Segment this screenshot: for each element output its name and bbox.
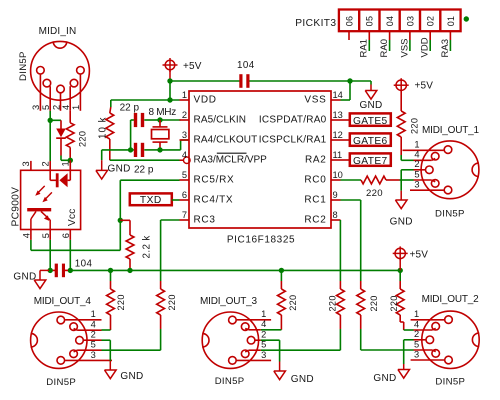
wire OUT1 pin2 to GND drop bbox=[401, 169, 413, 171]
svg-text:RC3: RC3 bbox=[194, 215, 216, 226]
svg-text:3: 3 bbox=[414, 180, 419, 190]
svg-text:VDD: VDD bbox=[420, 37, 431, 57]
crystal Q1 8MHz bbox=[159, 120, 161, 127]
opto internal LED bbox=[49, 170, 51, 180]
junction crystal top node bbox=[157, 117, 162, 122]
svg-text:MIDI_OUT_1: MIDI_OUT_1 bbox=[422, 125, 480, 136]
MIDI_OUT_1 pin 1 line bbox=[403, 149, 444, 151]
svg-text:VDD: VDD bbox=[194, 95, 217, 106]
wire +5V symbol drop bbox=[169, 70, 171, 81]
wire crystal top to RA5/CLKIN bbox=[160, 119, 181, 121]
resistor 10k (MCLR pullup) bbox=[110, 100, 112, 107]
junction rail at OUT3 supply resistor bbox=[279, 268, 284, 273]
svg-text:PICKIT3: PICKIT3 bbox=[295, 18, 336, 29]
+5V rail (bottom) bbox=[70, 269, 400, 271]
wire VDD top bbox=[111, 99, 180, 101]
MIDI_OUT_4 pin 1 line bbox=[65, 319, 101, 321]
pin 4 stub (inverted) bbox=[180, 159, 184, 161]
svg-text:1: 1 bbox=[182, 90, 187, 100]
PICKIT3 cell divider 5 bbox=[439, 10, 441, 32]
MIDI_IN pin 3 lead bbox=[39, 75, 41, 111]
svg-text:11: 11 bbox=[333, 150, 343, 160]
svg-text:220: 220 bbox=[410, 118, 420, 134]
svg-text:RA1: RA1 bbox=[359, 39, 370, 57]
pin 10 stub bbox=[331, 179, 341, 181]
wire junction to diode top bbox=[50, 119, 61, 121]
svg-text:1: 1 bbox=[414, 140, 419, 150]
svg-text:01: 01 bbox=[446, 16, 456, 27]
svg-text:GATE5: GATE5 bbox=[353, 116, 388, 127]
wire RC3 net bbox=[161, 219, 180, 221]
wire OUT2 supply bbox=[399, 270, 401, 281]
resistor 220 (RC3 series) bbox=[160, 281, 162, 289]
junction +5V to VDD wire bbox=[167, 97, 172, 102]
wire pin to GATE6 bbox=[341, 139, 350, 141]
svg-text:RA3: RA3 bbox=[440, 39, 451, 57]
svg-text:GND: GND bbox=[291, 374, 314, 385]
svg-text:13: 13 bbox=[333, 110, 343, 120]
wire PICKIT3 03 bbox=[409, 40, 411, 51]
wire RC2 net bbox=[339, 220, 341, 281]
svg-text:1: 1 bbox=[261, 309, 266, 319]
net flag GATE7 box bbox=[350, 153, 391, 165]
svg-text:GATE7: GATE7 bbox=[353, 156, 388, 167]
svg-text:MIDI_IN: MIDI_IN bbox=[39, 26, 77, 37]
connector MIDI_OUT_1 (DIN5P) body bbox=[421, 141, 479, 199]
junction MIDI_IN pin5 node bbox=[48, 118, 53, 123]
svg-text:DIN5P: DIN5P bbox=[18, 51, 29, 81]
MIDI_OUT_3 pin 5 line bbox=[245, 350, 249, 352]
svg-text:Vcc: Vcc bbox=[67, 208, 78, 226]
svg-text:2: 2 bbox=[91, 330, 96, 340]
MIDI_OUT_4 pin 2 line bbox=[84, 339, 102, 341]
MIDI_IN pin 5 lead bbox=[49, 86, 51, 111]
svg-text:220: 220 bbox=[167, 294, 177, 310]
svg-text:6: 6 bbox=[61, 233, 71, 238]
svg-text:ICSPDAT/RA0: ICSPDAT/RA0 bbox=[259, 115, 327, 126]
net flag GATE5 box bbox=[350, 113, 391, 125]
pin 9 stub bbox=[331, 199, 341, 201]
IC U2 PIC16F18325 body bbox=[189, 91, 331, 228]
svg-text:104: 104 bbox=[75, 258, 93, 269]
MIDI_IN pin 4 lead bbox=[69, 86, 71, 111]
MIDI_OUT_4 pin pads bbox=[57, 316, 65, 324]
MIDI_OUT_1 pin pads bbox=[444, 146, 452, 154]
svg-text:GATE6: GATE6 bbox=[353, 136, 388, 147]
svg-text:DIN5P: DIN5P bbox=[435, 377, 465, 388]
svg-text:RC4/TX: RC4/TX bbox=[194, 195, 234, 206]
svg-text:GND: GND bbox=[390, 216, 413, 227]
wire RC0 to resistor bbox=[341, 179, 362, 181]
PICKIT3 pin 03 stub bbox=[409, 31, 411, 40]
svg-text:06: 06 bbox=[344, 16, 354, 27]
svg-text:1: 1 bbox=[60, 161, 70, 166]
svg-text:220: 220 bbox=[389, 295, 399, 311]
wire OUT4 supply bbox=[110, 270, 112, 281]
wire TXD to RC4/TX bbox=[172, 199, 180, 201]
svg-text:2: 2 bbox=[40, 161, 50, 166]
pin 12 stub bbox=[331, 139, 341, 141]
wire pin to GATE5 bbox=[341, 119, 350, 121]
svg-text:4: 4 bbox=[21, 233, 31, 238]
svg-text:8: 8 bbox=[333, 210, 338, 220]
wire PICKIT3 02 bbox=[429, 40, 431, 51]
resistor 220 (MIDI_IN pin4) bbox=[69, 111, 71, 123]
svg-text:VSS: VSS bbox=[399, 38, 410, 57]
resistor 220 (RC1 series) bbox=[360, 281, 362, 289]
svg-text:104: 104 bbox=[237, 60, 255, 71]
opto light arrows bbox=[38, 186, 45, 193]
svg-text:2: 2 bbox=[414, 329, 419, 339]
svg-text:DIN5P: DIN5P bbox=[215, 376, 245, 387]
resistor 220 (OUT3 supply) bbox=[280, 281, 282, 289]
MIDI_OUT_1 pin 2 line bbox=[414, 169, 426, 171]
opto pin 2 stub bbox=[49, 161, 51, 170]
wire opto pin5 to GND node bbox=[49, 240, 51, 271]
svg-text:+5V: +5V bbox=[410, 250, 429, 261]
wire diode bottom to node bbox=[60, 156, 62, 161]
wire RC1 resistor to OUT2 pin5 bbox=[360, 329, 362, 350]
svg-text:RA5/CLKIN: RA5/CLKIN bbox=[194, 115, 247, 126]
power symbol +5V (top left) bbox=[165, 60, 175, 70]
junction RX node bbox=[118, 218, 123, 223]
svg-text:4: 4 bbox=[182, 150, 187, 160]
pin 3 stub bbox=[180, 139, 190, 141]
MIDI_OUT_3 pin 2 line bbox=[255, 339, 260, 341]
wire OUT3 supply bbox=[280, 270, 282, 281]
PICKIT3 cell divider 3 bbox=[399, 10, 401, 32]
svg-text:RA3/MCLR/VPP: RA3/MCLR/VPP bbox=[194, 155, 268, 166]
svg-text:DIN5P: DIN5P bbox=[46, 377, 76, 388]
svg-text:RC0: RC0 bbox=[304, 175, 326, 186]
power symbol +5V (right) bbox=[396, 80, 406, 90]
MIDI_OUT_2 pin pads bbox=[445, 316, 453, 324]
PICKIT3 pin 02 stub bbox=[429, 31, 431, 40]
diode D1 (reverse protection) bbox=[60, 120, 62, 128]
MIDI_OUT_1 pin 3 line bbox=[410, 189, 444, 191]
pin 6 stub bbox=[180, 199, 190, 201]
svg-text:5: 5 bbox=[414, 169, 419, 179]
pin 1 stub bbox=[180, 99, 190, 101]
opto pin 1 stub bbox=[69, 160, 71, 170]
svg-text:220: 220 bbox=[369, 295, 379, 311]
svg-text:RA4/CLKOUT: RA4/CLKOUT bbox=[194, 135, 258, 146]
PICKIT3 pin 01 stub bbox=[449, 31, 451, 40]
MIDI_OUT_3 pin 4 line bbox=[245, 329, 249, 330]
wire OUT1 supply to pin4 bbox=[400, 155, 402, 160]
svg-text:04: 04 bbox=[385, 16, 395, 27]
wire PICKIT3 05 bbox=[368, 40, 370, 51]
svg-text:TXD: TXD bbox=[140, 195, 162, 206]
svg-text:PIC16F18325: PIC16F18325 bbox=[227, 235, 295, 246]
resistor 220 (OUT2 supply) bbox=[399, 281, 401, 289]
svg-text:VSS: VSS bbox=[304, 95, 326, 106]
svg-text:5: 5 bbox=[182, 170, 187, 180]
MIDI_OUT_2 pin 3 line bbox=[411, 359, 445, 361]
wire opto out to RX riser bbox=[30, 240, 32, 250]
svg-text:MIDI_OUT_3: MIDI_OUT_3 bbox=[200, 296, 258, 307]
MIDI_OUT_2 pin 1 line bbox=[411, 319, 445, 321]
svg-text:1: 1 bbox=[71, 105, 81, 110]
svg-text:4: 4 bbox=[414, 319, 419, 329]
ground symbol GND2 (VSS) bbox=[350, 80, 371, 82]
svg-text:2: 2 bbox=[182, 110, 187, 120]
svg-text:GND: GND bbox=[13, 272, 36, 283]
svg-text:220: 220 bbox=[366, 188, 383, 199]
svg-text:GND: GND bbox=[120, 371, 143, 382]
svg-text:GND: GND bbox=[108, 163, 131, 174]
ground symbol GND5 (OUT4) bbox=[102, 339, 111, 341]
svg-text:3: 3 bbox=[31, 105, 41, 110]
wire PICKIT3 01 bbox=[449, 40, 451, 51]
svg-text:RA2: RA2 bbox=[305, 155, 327, 166]
junction VSS wire at pin14 riser bbox=[347, 78, 352, 83]
MIDI_OUT_2 pin 2 line bbox=[414, 339, 426, 341]
wire crystal bottom to RA4/CLKOUT bbox=[160, 149, 181, 151]
svg-text:ICSPCLK/RA1: ICSPCLK/RA1 bbox=[259, 135, 327, 146]
opto pin 5 stub bbox=[49, 230, 51, 240]
opto phototransistor bbox=[27, 208, 51, 211]
svg-text:7: 7 bbox=[182, 210, 187, 220]
svg-text:220: 220 bbox=[327, 295, 337, 311]
net flag TXD box bbox=[130, 193, 172, 205]
svg-text:05: 05 bbox=[365, 16, 375, 27]
junction +5V rail (opto pin6) bbox=[68, 268, 73, 273]
MIDI_OUT_4 pin 5 line bbox=[74, 350, 78, 352]
ground symbol GND7 (OUT2) bbox=[404, 339, 414, 341]
PICKIT3 pin 05 stub bbox=[368, 31, 370, 40]
pin 13 stub bbox=[331, 119, 341, 121]
junction cap-gnd node bbox=[128, 147, 133, 152]
svg-text:GND: GND bbox=[373, 373, 396, 384]
pin 5 stub bbox=[180, 179, 190, 181]
svg-text:3: 3 bbox=[182, 130, 187, 140]
svg-text:3: 3 bbox=[21, 161, 31, 166]
opto pin 6 stub bbox=[69, 230, 71, 240]
svg-text:3: 3 bbox=[91, 350, 96, 360]
svg-text:22 p: 22 p bbox=[120, 103, 140, 114]
connector MIDI_OUT_3 (DIN5P) body bbox=[202, 312, 258, 368]
PICKIT3 cell divider 4 bbox=[419, 10, 421, 32]
connector MIDI_IN (DIN5P) body bbox=[31, 41, 90, 100]
resistor 220 (OUT1 supply) bbox=[400, 91, 402, 112]
junction crystal bottom node bbox=[157, 147, 162, 152]
PICKIT3 cell divider 1 bbox=[358, 10, 360, 32]
PICKIT3 pin 06 stub bbox=[348, 31, 350, 40]
capacitor 22p (bottom) bbox=[131, 149, 134, 151]
wire riser to VSS pin14 bbox=[349, 81, 351, 100]
opto pin 4 stub bbox=[30, 230, 32, 240]
svg-text:2: 2 bbox=[261, 330, 266, 340]
MIDI_OUT_2 pin 4 line bbox=[414, 329, 433, 331]
svg-text:220: 220 bbox=[288, 295, 298, 311]
capacitor 104 (VDD bypass) bbox=[240, 80, 242, 82]
wire +5V symbol to rail bbox=[399, 259, 401, 271]
power symbol +5V (bottom) bbox=[395, 248, 405, 258]
pin 2 stub bbox=[180, 119, 190, 121]
junction rail at +5V symbol bbox=[398, 268, 403, 273]
svg-text:RC1: RC1 bbox=[304, 195, 326, 206]
svg-text:4: 4 bbox=[61, 105, 71, 110]
svg-text:5: 5 bbox=[41, 105, 51, 110]
svg-text:PC900V: PC900V bbox=[11, 187, 22, 227]
svg-text:+5V: +5V bbox=[415, 81, 434, 92]
MIDI_IN pin 1 lead bbox=[79, 75, 81, 111]
svg-text:02: 02 bbox=[426, 16, 436, 27]
svg-text:5: 5 bbox=[91, 340, 96, 350]
resistor 2.2k pullup bbox=[120, 219, 130, 221]
svg-text:4: 4 bbox=[261, 319, 266, 329]
wire PICKIT3 04 bbox=[389, 40, 391, 51]
svg-text:6: 6 bbox=[182, 190, 187, 200]
svg-text:MIDI_OUT_4: MIDI_OUT_4 bbox=[34, 296, 92, 307]
stray junction dot bbox=[464, 16, 469, 21]
svg-text:2.2 k: 2.2 k bbox=[142, 235, 153, 258]
MIDI_OUT_1 pin 5 line bbox=[414, 179, 432, 181]
svg-text:9: 9 bbox=[333, 190, 338, 200]
svg-text:GND: GND bbox=[359, 100, 382, 111]
pin 14 stub bbox=[331, 99, 341, 101]
junction GND node (opto pin5) bbox=[48, 268, 53, 273]
connector MIDI_OUT_4 (DIN5P) body bbox=[31, 312, 87, 368]
svg-text:DIN5P: DIN5P bbox=[435, 209, 465, 220]
wire RC2 resistor to OUT3 pin5 bbox=[339, 329, 341, 350]
ground symbol GND1 (crystal caps) bbox=[102, 149, 131, 151]
svg-text:RC2: RC2 bbox=[304, 215, 326, 226]
connector PICKIT3 outline bbox=[339, 10, 461, 32]
svg-text:3: 3 bbox=[261, 350, 266, 360]
svg-text:8 MHz: 8 MHz bbox=[149, 107, 177, 118]
wire RX node to RC5/RX pin bbox=[119, 180, 121, 220]
opto pin 3 stub bbox=[30, 161, 32, 170]
MIDI_IN pin pads bbox=[37, 67, 45, 75]
MIDI_OUT_1 pin 4 line bbox=[414, 159, 432, 161]
svg-text:RA0: RA0 bbox=[379, 39, 390, 57]
ground symbol GND4 (OUT1) bbox=[400, 170, 402, 191]
capacitor 22p (top) bbox=[131, 119, 134, 121]
svg-text:10: 10 bbox=[333, 170, 343, 180]
svg-text:RC5/RX: RC5/RX bbox=[194, 175, 235, 186]
MIDI_OUT_4 pin 3 line bbox=[65, 359, 112, 361]
MIDI_OUT_3 pin pads bbox=[229, 316, 237, 324]
wire MIDI_IN pin5 to opto pin2 bbox=[49, 111, 51, 161]
junction +5V to VSS cap wire bbox=[167, 78, 172, 83]
wire pin to GATE7 bbox=[341, 159, 350, 161]
opto U1 PC900V body bbox=[21, 170, 81, 229]
ground symbol GND6 (OUT3) bbox=[261, 339, 280, 341]
wire opto pin6 to +5V rail bbox=[69, 240, 71, 271]
junction rail at OUT4 supply resistor bbox=[108, 268, 113, 273]
PICKIT3 pin 04 stub bbox=[389, 31, 391, 40]
MIDI_OUT_4 pin 4 line bbox=[74, 329, 78, 331]
wire RC1 net bbox=[341, 199, 361, 201]
svg-text:4: 4 bbox=[414, 150, 419, 160]
MIDI_IN pin 2 lead bbox=[60, 93, 62, 111]
svg-text:1: 1 bbox=[414, 309, 419, 319]
wire cap-gnd left riser bbox=[130, 120, 132, 150]
svg-text:1: 1 bbox=[91, 309, 96, 319]
svg-text:MIDI_OUT_2: MIDI_OUT_2 bbox=[422, 294, 480, 305]
svg-text:10 k: 10 k bbox=[98, 116, 109, 139]
resistor 220 (RC2 series) bbox=[339, 281, 341, 289]
svg-text:+5V: +5V bbox=[183, 61, 202, 72]
pin 11 stub bbox=[331, 159, 341, 161]
ground symbol GND3 (near bypass cap) bbox=[49, 269, 50, 271]
capacitor 104 (supply bypass) bbox=[50, 269, 53, 271]
pin 7 stub bbox=[180, 219, 190, 221]
wire RC3 resistor to OUT4 pin5 bbox=[160, 329, 162, 350]
junction 2.2k to +5V rail bbox=[127, 268, 132, 273]
MIDI_OUT_3 pin 1 line bbox=[237, 319, 271, 321]
connector MIDI_OUT_2 (DIN5P) body bbox=[422, 311, 479, 368]
wire VSS bypass run bbox=[170, 80, 240, 82]
resistor 220 (RC0 series) bbox=[361, 176, 386, 184]
svg-text:5: 5 bbox=[414, 339, 419, 349]
net flag GATE6 box bbox=[350, 133, 391, 145]
MIDI_OUT_2 pin 5 line bbox=[414, 349, 433, 351]
wire resistor to OUT1 pin5 bbox=[386, 179, 400, 181]
svg-text:4: 4 bbox=[91, 320, 96, 330]
svg-text:220: 220 bbox=[78, 131, 88, 147]
svg-text:5: 5 bbox=[261, 340, 266, 350]
MIDI_OUT_3 pin 3 line bbox=[237, 359, 271, 361]
svg-text:2: 2 bbox=[51, 105, 61, 110]
junction opto pin1 node bbox=[68, 158, 73, 163]
PICKIT3 cell divider 2 bbox=[378, 10, 380, 32]
svg-text:03: 03 bbox=[405, 16, 415, 27]
svg-text:22 p: 22 p bbox=[134, 165, 154, 176]
wire MCLR net bbox=[110, 159, 180, 161]
svg-text:3: 3 bbox=[414, 349, 419, 359]
svg-text:12: 12 bbox=[333, 130, 343, 140]
svg-text:220: 220 bbox=[116, 294, 126, 310]
svg-text:14: 14 bbox=[333, 90, 343, 100]
svg-text:2: 2 bbox=[414, 159, 419, 169]
pin 8 stub bbox=[331, 219, 341, 221]
svg-text:5: 5 bbox=[41, 233, 51, 238]
resistor 220 (OUT4 supply) bbox=[110, 281, 112, 289]
